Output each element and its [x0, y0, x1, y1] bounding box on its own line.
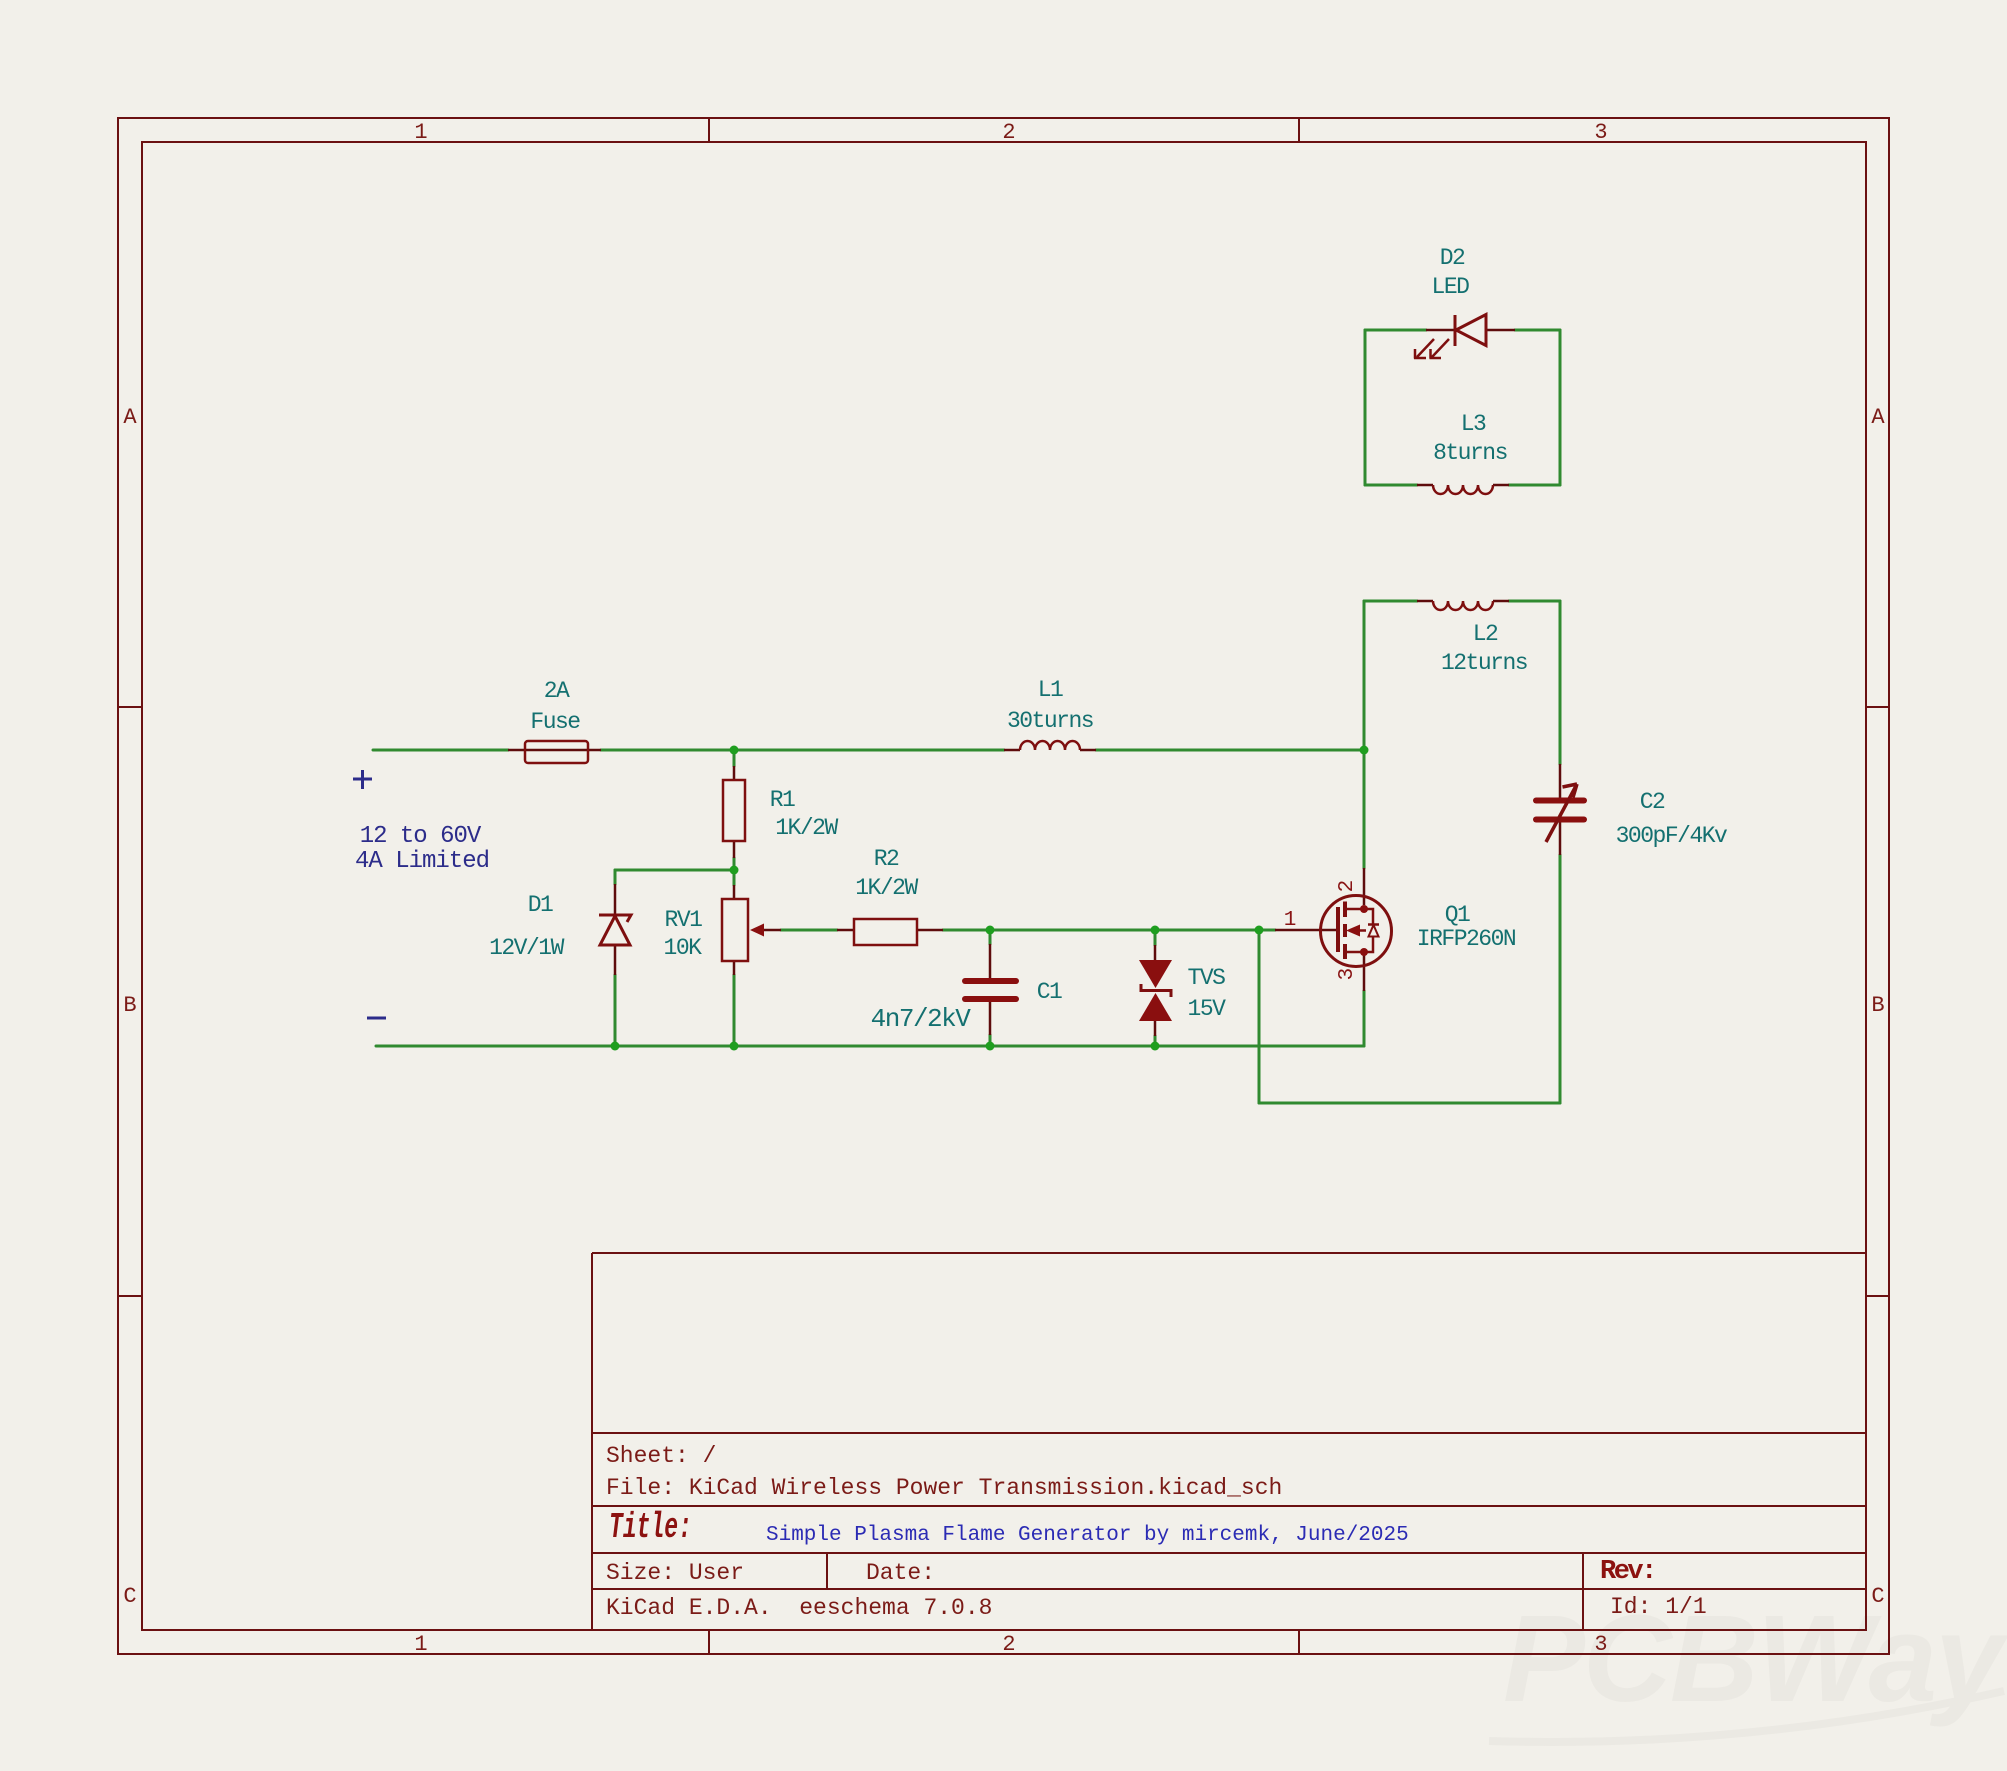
svg-text:1: 1 [414, 1632, 427, 1657]
svg-text:R1: R1 [770, 787, 795, 813]
svg-text:30turns: 30turns [1007, 708, 1093, 734]
svg-text:15V: 15V [1188, 996, 1227, 1022]
svg-text:Q1: Q1 [1445, 902, 1470, 928]
svg-text:8turns: 8turns [1433, 440, 1507, 466]
svg-text:Simple Plasma Flame Generator: Simple Plasma Flame Generator by mircemk… [766, 1524, 1409, 1547]
svg-text:C: C [123, 1584, 136, 1609]
svg-text:300pF/4Kv: 300pF/4Kv [1616, 823, 1728, 849]
svg-text:KiCad E.D.A. eeschema 7.0.8: KiCad E.D.A. eeschema 7.0.8 [606, 1595, 992, 1621]
svg-text:B: B [1871, 993, 1884, 1018]
svg-text:1K/2W: 1K/2W [855, 875, 918, 901]
svg-text:2: 2 [1002, 1632, 1015, 1657]
svg-text:Sheet: /: Sheet: / [606, 1443, 716, 1469]
svg-text:Fuse: Fuse [530, 709, 580, 735]
svg-text:2: 2 [1002, 120, 1015, 145]
svg-text:C2: C2 [1640, 789, 1665, 815]
svg-text:TVS: TVS [1188, 965, 1226, 991]
svg-text:L3: L3 [1461, 411, 1486, 437]
svg-text:IRFP260N: IRFP260N [1417, 926, 1515, 952]
svg-text:4A Limited: 4A Limited [355, 848, 489, 875]
svg-text:12turns: 12turns [1441, 650, 1527, 676]
svg-text:3: 3 [1336, 968, 1359, 981]
svg-text:4n7/2kV: 4n7/2kV [871, 1004, 972, 1034]
svg-text:Title:: Title: [609, 1508, 692, 1548]
svg-text:1: 1 [414, 120, 427, 145]
svg-text:12 to 60V: 12 to 60V [360, 823, 482, 850]
svg-text:1: 1 [1284, 909, 1297, 932]
svg-text:L1: L1 [1038, 677, 1063, 703]
svg-text:LED: LED [1432, 274, 1470, 300]
svg-text:Id: 1/1: Id: 1/1 [1610, 1594, 1707, 1620]
svg-text:A: A [1871, 405, 1885, 430]
svg-text:2A: 2A [544, 678, 570, 704]
svg-text:L2: L2 [1473, 621, 1498, 647]
svg-text:10K: 10K [664, 935, 703, 961]
svg-text:3: 3 [1594, 1632, 1607, 1657]
svg-text:C1: C1 [1037, 979, 1062, 1005]
svg-text:3: 3 [1594, 120, 1607, 145]
svg-text:Size: User: Size: User [606, 1560, 744, 1586]
svg-text:A: A [123, 405, 137, 430]
svg-text:D2: D2 [1440, 245, 1465, 271]
svg-text:RV1: RV1 [665, 907, 703, 933]
svg-text:B: B [123, 993, 136, 1018]
svg-text:Date:: Date: [866, 1560, 935, 1586]
svg-text:Rev:: Rev: [1600, 1557, 1655, 1587]
svg-text:File: KiCad Wireless Power Tra: File: KiCad Wireless Power Transmission.… [606, 1475, 1282, 1501]
svg-text:C: C [1871, 1584, 1884, 1609]
svg-text:2: 2 [1336, 880, 1359, 893]
svg-text:D1: D1 [528, 892, 553, 918]
svg-text:1K/2W: 1K/2W [775, 815, 838, 841]
svg-text:R2: R2 [874, 846, 899, 872]
svg-text:12V/1W: 12V/1W [489, 935, 565, 961]
